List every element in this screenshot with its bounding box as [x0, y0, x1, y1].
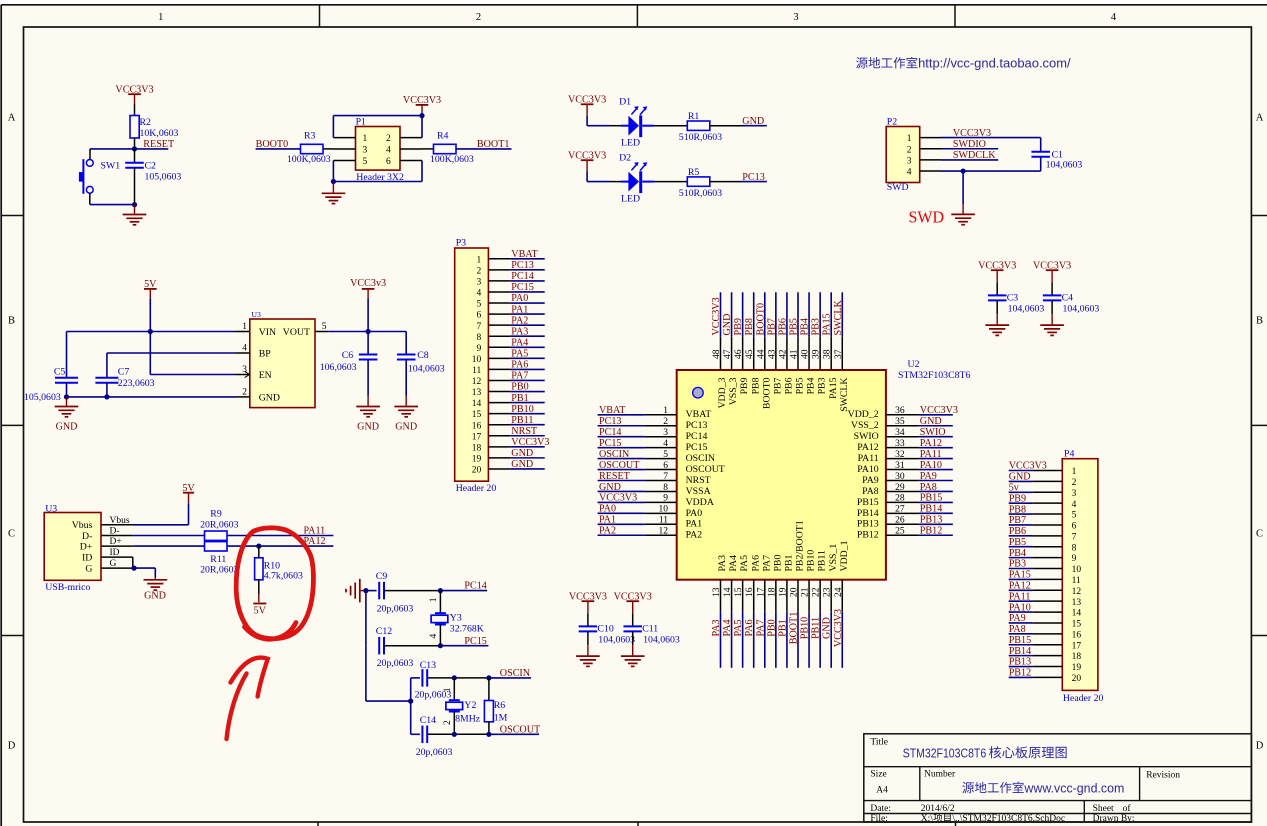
- svg-text:14: 14: [723, 587, 733, 597]
- U2 left pin 10 net PA0: [598, 504, 677, 515]
- ground (C8): [395, 396, 417, 433]
- net label PB0 (P3 pin 13): [510, 382, 544, 393]
- svg-text:GND: GND: [357, 421, 379, 432]
- svg-text:VIN: VIN: [259, 327, 276, 338]
- svg-text:22: 22: [812, 587, 822, 597]
- svg-text:8: 8: [477, 333, 482, 343]
- svg-text:VDD_2: VDD_2: [848, 409, 879, 420]
- svg-text:PB14: PB14: [857, 508, 879, 519]
- svg-text:C5: C5: [54, 367, 66, 378]
- svg-text:3: 3: [477, 278, 482, 288]
- wire GND row: [67, 396, 236, 398]
- svg-text:PB15: PB15: [1009, 635, 1031, 646]
- svg-text:PB14: PB14: [920, 504, 942, 515]
- svg-text:R3: R3: [304, 131, 316, 142]
- svg-text:510R,0603: 510R,0603: [679, 188, 722, 199]
- header P3 Header 20: [455, 237, 511, 493]
- net label PA3 (P3 pin 8): [510, 326, 544, 337]
- svg-text:104,0603: 104,0603: [1046, 160, 1083, 171]
- ground (SWD): [962, 204, 964, 214]
- wire: [587, 125, 610, 127]
- svg-text:10K,0603: 10K,0603: [140, 128, 179, 139]
- svg-text:41: 41: [789, 349, 799, 359]
- svg-text:PB6: PB6: [1009, 526, 1026, 537]
- svg-text:VDDA: VDDA: [686, 497, 714, 508]
- svg-text:OSCIN: OSCIN: [686, 453, 715, 464]
- capacitor C9: [366, 571, 441, 615]
- svg-text:3: 3: [1072, 489, 1077, 499]
- svg-text:PA2: PA2: [511, 315, 528, 326]
- svg-text:100K,0603: 100K,0603: [287, 154, 331, 165]
- crystal Y3: [429, 591, 484, 646]
- svg-text:47: 47: [723, 349, 733, 359]
- U2 right pin 32 net PA11: [886, 449, 953, 460]
- resistor R2: [130, 104, 179, 149]
- svg-text:PB4: PB4: [806, 377, 817, 394]
- svg-text:2: 2: [443, 720, 453, 725]
- net label PC13: [742, 172, 767, 183]
- svg-text:D+: D+: [110, 537, 122, 547]
- capacitor C11: [623, 613, 679, 645]
- U2 right pin 25 net PB12: [886, 526, 953, 537]
- net label PA11 (P4 pin 13): [1009, 591, 1033, 602]
- LED D2: [610, 153, 654, 205]
- net label PA6 (P3 pin 11): [510, 360, 544, 371]
- U2 bottom pin 14 net PA4: [722, 580, 733, 668]
- resistor R4: [430, 131, 474, 165]
- svg-text:PB3: PB3: [1009, 559, 1026, 570]
- svg-text:2: 2: [477, 266, 482, 276]
- svg-text:3: 3: [663, 428, 668, 438]
- svg-text:PB7: PB7: [772, 377, 783, 394]
- svg-text:PA11: PA11: [920, 449, 942, 460]
- power VCC3V3 (R2): [115, 84, 153, 104]
- crystal Y2: [443, 678, 481, 734]
- svg-text:8MHz: 8MHz: [455, 713, 481, 724]
- svg-text:15: 15: [472, 410, 482, 420]
- net label PC15: [440, 636, 488, 647]
- svg-text:PB11: PB11: [811, 617, 822, 639]
- svg-text:3: 3: [907, 157, 912, 167]
- svg-text:STM32F103C8T6: STM32F103C8T6: [898, 370, 971, 381]
- svg-text:D2: D2: [619, 153, 631, 164]
- net label PA0 (P3 pin 5): [510, 293, 544, 304]
- capacitor C3: [988, 282, 1044, 314]
- wire to ground: [90, 204, 135, 206]
- svg-text:SWCLK: SWCLK: [833, 299, 844, 335]
- svg-text:U2: U2: [908, 359, 920, 370]
- svg-text:5: 5: [663, 450, 668, 460]
- svg-text:4: 4: [477, 289, 482, 299]
- svg-text:4: 4: [242, 343, 247, 353]
- svg-text:GND: GND: [920, 416, 942, 427]
- svg-text:Y2: Y2: [464, 700, 476, 711]
- U2 top pin 47 net GND: [722, 292, 733, 370]
- svg-text:ID: ID: [82, 552, 92, 563]
- svg-text:PC15: PC15: [464, 636, 486, 647]
- wire loop vertical: [410, 678, 412, 734]
- svg-text:PA10: PA10: [920, 460, 942, 471]
- U2 left pin 9 net VCC3V3: [598, 493, 677, 504]
- svg-text:PC13: PC13: [742, 172, 764, 183]
- ground (crystal): [346, 579, 360, 603]
- U2 left pin 6 net OSCOUT: [598, 460, 677, 471]
- svg-text:VCC3V3: VCC3V3: [711, 297, 722, 335]
- svg-text:PA2: PA2: [599, 526, 616, 537]
- svg-text:42: 42: [778, 349, 788, 359]
- wire BP: [107, 352, 236, 354]
- svg-text:36: 36: [895, 406, 905, 416]
- wire to 8MHz loop: [366, 646, 411, 701]
- svg-text:4.7k,0603: 4.7k,0603: [264, 570, 303, 581]
- svg-text:13: 13: [472, 388, 482, 398]
- header P2 SWD: [886, 117, 941, 194]
- svg-text:C4: C4: [1062, 293, 1074, 304]
- svg-text:R11: R11: [210, 554, 226, 565]
- svg-text:PB9: PB9: [1009, 493, 1026, 504]
- resistor R3: [287, 131, 331, 165]
- regulator U3: [236, 310, 329, 408]
- svg-text:2: 2: [907, 145, 912, 155]
- power VCC3V3 (C3): [978, 260, 1016, 282]
- svg-text:BOOT0: BOOT0: [761, 377, 772, 409]
- ground (C3): [996, 314, 998, 325]
- svg-text:2: 2: [476, 12, 481, 23]
- svg-text:20: 20: [1072, 674, 1082, 684]
- svg-text:A4: A4: [876, 785, 888, 795]
- wire: [654, 181, 687, 183]
- capacitor C10: [579, 613, 635, 645]
- U2 top pin 44 net BOOT0: [755, 292, 766, 370]
- svg-text:17: 17: [756, 587, 766, 597]
- svg-text:PA1: PA1: [686, 519, 703, 530]
- net label PB10 (P3 pin 15): [510, 404, 544, 415]
- svg-text:A: A: [1256, 113, 1264, 124]
- svg-text:C10: C10: [597, 624, 613, 635]
- junction: [438, 588, 443, 593]
- svg-text:1: 1: [907, 134, 912, 144]
- svg-text:C: C: [1256, 529, 1263, 540]
- svg-text:PB0: PB0: [511, 382, 528, 393]
- ground (C10): [587, 645, 589, 656]
- svg-text:PB9: PB9: [733, 318, 744, 335]
- svg-text:40: 40: [801, 349, 811, 359]
- U2 left pin 8 net GND: [598, 482, 677, 493]
- svg-text:NRST: NRST: [511, 426, 537, 437]
- net label 5v (P4 pin 3): [1009, 482, 1033, 493]
- svg-text:104,0603: 104,0603: [408, 363, 445, 374]
- svg-text:VCC3V3: VCC3V3: [953, 128, 991, 139]
- svg-text:PC13: PC13: [599, 416, 621, 427]
- svg-text:104,0603: 104,0603: [598, 635, 635, 646]
- ground (SW1/C2): [134, 205, 136, 215]
- wire pin1 to VCC: [333, 116, 422, 138]
- svg-text:BOOT1: BOOT1: [477, 139, 510, 150]
- wire D-: [101, 527, 205, 537]
- svg-text:PA10: PA10: [857, 464, 879, 475]
- svg-text:3: 3: [242, 365, 247, 375]
- svg-text:104,0603: 104,0603: [1063, 304, 1100, 315]
- junction: [961, 168, 966, 173]
- svg-text:17: 17: [1072, 641, 1082, 651]
- svg-text:GND: GND: [1009, 472, 1031, 483]
- svg-text:6: 6: [1072, 522, 1077, 532]
- svg-text:Date:: Date:: [870, 804, 891, 814]
- svg-text:PC14: PC14: [511, 271, 533, 282]
- svg-text:C7: C7: [118, 367, 130, 378]
- wire pin4: [941, 170, 1041, 172]
- svg-text:P3: P3: [456, 237, 466, 248]
- svg-text:1: 1: [477, 255, 482, 265]
- junction: [131, 566, 136, 571]
- svg-text:20R,0603: 20R,0603: [200, 519, 238, 530]
- junction: [132, 202, 137, 207]
- net label PA12 (P4 pin 12): [1009, 580, 1033, 591]
- svg-text:43: 43: [767, 349, 777, 359]
- svg-text:PB7: PB7: [766, 318, 777, 335]
- svg-text:PB0: PB0: [766, 619, 777, 636]
- svg-text:R9: R9: [210, 508, 222, 519]
- svg-text:GND: GND: [742, 116, 764, 127]
- svg-text:PA4: PA4: [722, 619, 733, 636]
- svg-text:PC13: PC13: [511, 260, 533, 271]
- svg-text:PA4: PA4: [728, 555, 739, 572]
- net label VCC3V3 (P3 pin 18): [510, 437, 549, 448]
- svg-text:R2: R2: [140, 117, 152, 128]
- power VCC3V3 (C4): [1033, 260, 1071, 282]
- svg-text:Drawn By:: Drawn By:: [1093, 814, 1135, 824]
- svg-text:http://vcc-gnd.taobao.com/: http://vcc-gnd.taobao.com/: [918, 57, 1071, 71]
- connector U3 USB-mrico: [44, 504, 101, 594]
- svg-text:D: D: [8, 741, 16, 752]
- svg-text:7: 7: [477, 322, 482, 332]
- U2 top pin 46 net PB9: [733, 292, 744, 370]
- header P1 Header 3X2: [333, 117, 422, 184]
- U2 right pin 35 net GND: [886, 416, 953, 427]
- junction: [256, 544, 261, 549]
- svg-text:2: 2: [1072, 478, 1077, 488]
- U2 left pin 1 net VBAT: [598, 405, 677, 416]
- net VCC3V3 wire: [941, 128, 1041, 139]
- U2 top pin 41 net PB5: [788, 292, 799, 370]
- svg-text:25: 25: [895, 527, 905, 537]
- svg-text:SWD: SWD: [909, 208, 945, 227]
- svg-text:6: 6: [663, 461, 668, 471]
- capacitor C7: [95, 353, 154, 397]
- svg-text:C2: C2: [145, 161, 157, 172]
- net label PB15 (P4 pin 17): [1009, 635, 1033, 646]
- net label PA1 (P3 pin 6): [510, 304, 544, 315]
- ground (C6): [357, 396, 379, 433]
- resistor R11: [200, 542, 238, 576]
- svg-text:11: 11: [472, 366, 481, 376]
- svg-text:12: 12: [472, 377, 482, 387]
- svg-text:VBAT: VBAT: [686, 409, 712, 420]
- LED D1: [610, 97, 654, 149]
- svg-text:PB0: PB0: [772, 555, 783, 572]
- svg-text:Sheet: Sheet: [1093, 804, 1114, 814]
- svg-text:GND: GND: [822, 617, 833, 639]
- junction: [132, 146, 137, 151]
- junction: [104, 394, 109, 399]
- svg-text:PB13: PB13: [857, 519, 879, 530]
- junction: [64, 394, 69, 399]
- wire: [587, 181, 610, 183]
- net label VCC3V3 (P4 pin 1): [1009, 461, 1047, 472]
- svg-text:30: 30: [895, 472, 905, 482]
- U2 left pin 11 net PA1: [598, 515, 677, 526]
- power VCC3V3 (D2): [568, 151, 606, 182]
- svg-text:VCC3V3: VCC3V3: [920, 405, 958, 416]
- svg-text:4: 4: [1111, 12, 1117, 23]
- svg-text:PA11: PA11: [858, 453, 879, 464]
- capacitor C2: [125, 149, 181, 205]
- svg-text:R4: R4: [437, 131, 449, 142]
- svg-text:PA8: PA8: [1009, 624, 1026, 635]
- svg-text:C14: C14: [420, 715, 436, 726]
- wire: [710, 125, 742, 127]
- svg-text:SWDIO: SWDIO: [953, 139, 986, 150]
- svg-text:Title: Title: [870, 737, 888, 747]
- svg-text:PB5: PB5: [1009, 537, 1026, 548]
- svg-text:PA8: PA8: [862, 486, 879, 497]
- svg-text:PB12: PB12: [1009, 668, 1031, 679]
- net label PA10 (P4 pin 14): [1009, 602, 1033, 613]
- U2 left pin 12 net PA2: [598, 526, 677, 537]
- net label PB9 (P4 pin 4): [1009, 493, 1033, 504]
- ground (P1): [332, 182, 334, 194]
- svg-text:C9: C9: [376, 571, 388, 582]
- svg-text:NRST: NRST: [686, 475, 711, 486]
- svg-text:PA6: PA6: [744, 619, 755, 636]
- frame column numbers: [158, 12, 1117, 23]
- svg-text:SWD: SWD: [887, 182, 909, 193]
- svg-text:20p,0603: 20p,0603: [377, 658, 414, 669]
- U2 bottom pin 19 net PB1: [777, 580, 788, 668]
- U2 right pin 26 net PB13: [886, 515, 953, 526]
- svg-text:1: 1: [158, 12, 163, 23]
- svg-text:21: 21: [801, 587, 811, 597]
- svg-text:2: 2: [386, 134, 391, 144]
- svg-text:VBAT: VBAT: [599, 405, 625, 416]
- svg-text:100K,0603: 100K,0603: [430, 154, 474, 165]
- svg-text:D-: D-: [82, 531, 92, 542]
- svg-text:17: 17: [472, 432, 482, 442]
- junction: [366, 329, 371, 334]
- svg-text:BOOT1: BOOT1: [788, 612, 799, 645]
- U2 left pin 2 net PC13: [598, 416, 677, 427]
- svg-text:PA3: PA3: [717, 555, 728, 572]
- svg-text:PA9: PA9: [1009, 613, 1026, 624]
- svg-text:C13: C13: [420, 660, 436, 671]
- svg-text:R6: R6: [494, 700, 506, 711]
- svg-text:GND: GND: [511, 448, 533, 459]
- svg-text:PA11: PA11: [304, 526, 326, 537]
- wire VOUT: [328, 331, 406, 333]
- net label PB11 (P3 pin 16): [510, 415, 544, 426]
- svg-text:SWIO: SWIO: [854, 431, 879, 442]
- svg-text:29: 29: [895, 483, 905, 493]
- svg-text:PB3: PB3: [811, 318, 822, 335]
- svg-text:104,0603: 104,0603: [643, 635, 680, 646]
- svg-text:20R,0603: 20R,0603: [200, 565, 238, 576]
- U2 top pin 43 net PB7: [766, 292, 777, 370]
- power VCC3V3 (D1): [568, 95, 606, 126]
- svg-text:EN: EN: [259, 370, 272, 381]
- svg-text:1: 1: [443, 687, 453, 692]
- svg-text:\..\STM32F103C8T6.SchDoc: \..\STM32F103C8T6.SchDoc: [952, 814, 1065, 824]
- svg-text:VCC3V3: VCC3V3: [511, 437, 549, 448]
- svg-text:PA0: PA0: [511, 293, 528, 304]
- svg-text:Y3: Y3: [450, 612, 462, 623]
- svg-text:10: 10: [472, 355, 482, 365]
- svg-text:5: 5: [363, 157, 368, 167]
- U2 right pin 33 net PA12: [886, 438, 953, 449]
- net label PB14 (P4 pin 18): [1009, 646, 1033, 657]
- svg-text:PA10: PA10: [1009, 602, 1031, 613]
- svg-text:X:\: X:\: [921, 814, 934, 824]
- wire RESET: [90, 148, 168, 150]
- wire OSCOUT row: [454, 733, 489, 735]
- svg-text:5: 5: [322, 322, 327, 332]
- net label PC14 (P3 pin 3): [510, 271, 544, 282]
- svg-text:5: 5: [1072, 511, 1077, 521]
- svg-text:D-: D-: [110, 527, 120, 537]
- wire pin5/pin6 to ground: [333, 161, 422, 182]
- power VCC3V3 (C10): [569, 591, 607, 613]
- svg-text:www.vcc-gnd.com: www.vcc-gnd.com: [1023, 781, 1124, 795]
- svg-text:PB3: PB3: [817, 377, 828, 394]
- U2 bottom pin 16 net PA6: [744, 580, 755, 668]
- net label PB7 (P4 pin 6): [1009, 515, 1033, 526]
- svg-text:PB12: PB12: [920, 526, 942, 537]
- svg-text:5: 5: [477, 300, 482, 310]
- svg-text:46: 46: [734, 349, 744, 359]
- U2 bottom pin 24 net VCC3V3: [833, 580, 844, 668]
- svg-text:VBAT: VBAT: [511, 249, 537, 260]
- wire 5V to EN: [150, 332, 235, 375]
- U2 left pin 5 net OSCIN: [598, 449, 677, 460]
- net label PA12: [227, 536, 333, 547]
- net label PA5 (P3 pin 10): [510, 349, 544, 360]
- svg-text:PC13: PC13: [686, 420, 708, 431]
- net label VBAT (P3 pin 1): [510, 249, 544, 260]
- net label PB5 (P4 pin 8): [1009, 537, 1033, 548]
- svg-text:PB6: PB6: [784, 377, 795, 394]
- svg-text:7: 7: [663, 472, 668, 482]
- svg-text:VCC3v3: VCC3v3: [350, 278, 386, 289]
- svg-text:32: 32: [895, 450, 905, 460]
- resistor R10: [255, 546, 303, 602]
- U2 bottom pin 18 net PB0: [766, 580, 777, 668]
- svg-text:14: 14: [1072, 609, 1082, 619]
- svg-text:PB8: PB8: [744, 318, 755, 335]
- svg-text:37: 37: [834, 349, 844, 359]
- svg-text:Size: Size: [870, 769, 886, 779]
- capacitor C14: [411, 715, 455, 758]
- net label GND: [742, 116, 767, 127]
- svg-text:5v: 5v: [1009, 482, 1020, 493]
- svg-text:PA4: PA4: [511, 337, 528, 348]
- svg-text:Header 20: Header 20: [1063, 693, 1104, 704]
- resistor R1: [679, 111, 722, 143]
- svg-text:18: 18: [1072, 652, 1082, 662]
- svg-text:PA5: PA5: [511, 349, 528, 360]
- junction: [452, 675, 457, 680]
- svg-text:STM32F103C8T6: STM32F103C8T6: [903, 746, 987, 760]
- svg-text:1: 1: [363, 134, 368, 144]
- svg-text:12: 12: [659, 527, 669, 537]
